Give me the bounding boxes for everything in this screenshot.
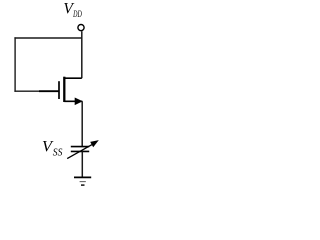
wire: source down to capacitor — [81, 101, 83, 146]
source arrowhead — [75, 98, 83, 106]
top plate — [71, 146, 89, 148]
variability arrowhead — [90, 140, 99, 147]
label VSS — [42, 139, 63, 159]
label VDD — [63, 1, 81, 20]
gate bar — [58, 81, 60, 99]
channel bar — [63, 77, 65, 102]
power terminal VDD — [78, 25, 84, 31]
transistor M1 (NMOS, diode-connected) — [59, 77, 83, 105]
svg-text:VSS: VSS — [42, 139, 63, 159]
capacitor (variable) — [67, 140, 99, 159]
drain lead — [64, 77, 82, 79]
wire: gate-drain feedback loop top segment — [14, 37, 82, 39]
svg-text:VDD: VDD — [63, 1, 81, 20]
ground — [74, 177, 91, 185]
bottom plate — [71, 150, 89, 152]
wire: capacitor down to ground — [81, 151, 83, 177]
wire: VDD terminal down to drain — [81, 31, 83, 78]
wire: gate-drain feedback loop left segment — [14, 37, 16, 92]
source lead — [64, 100, 82, 102]
wire: loop to gate — [14, 90, 58, 92]
variability arrow shaft — [67, 143, 94, 158]
